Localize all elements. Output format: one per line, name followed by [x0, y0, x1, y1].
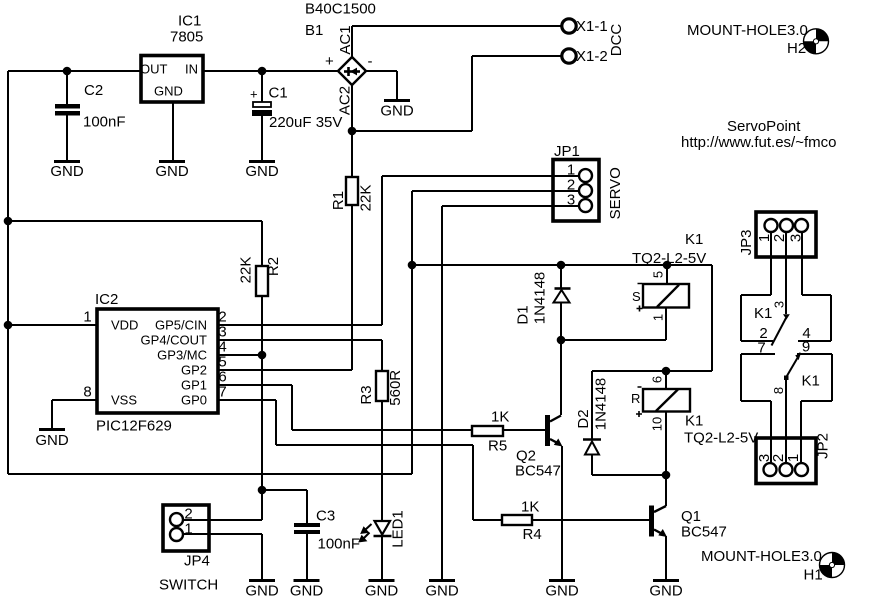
svg-text:R5: R5 [488, 438, 507, 455]
svg-text:8: 8 [83, 384, 91, 401]
svg-text:K1: K1 [754, 305, 772, 322]
svg-text:B40C1500: B40C1500 [305, 1, 376, 18]
svg-text:GP4/COUT: GP4/COUT [141, 333, 208, 348]
svg-text:100nF: 100nF [318, 536, 361, 553]
svg-text:100nF: 100nF [83, 114, 126, 131]
svg-text:VSS: VSS [111, 393, 137, 408]
svg-text:7805: 7805 [170, 29, 203, 46]
svg-text:GP0: GP0 [181, 393, 207, 408]
svg-text:560R: 560R [387, 370, 404, 406]
svg-text:GND: GND [545, 583, 579, 600]
svg-text:GND: GND [154, 84, 183, 99]
svg-text:1: 1 [651, 314, 666, 321]
svg-text:DCC: DCC [608, 24, 625, 57]
svg-text:1N4148: 1N4148 [593, 378, 610, 431]
svg-text:6: 6 [650, 376, 665, 383]
svg-text:1: 1 [184, 521, 192, 538]
svg-text:BC547: BC547 [515, 463, 561, 480]
svg-text:-: - [368, 53, 373, 70]
svg-text:K1: K1 [685, 231, 703, 248]
svg-text:X1-1: X1-1 [576, 18, 608, 35]
svg-text:2: 2 [771, 234, 788, 242]
svg-text:AC2: AC2 [337, 86, 354, 115]
svg-text:5: 5 [651, 271, 666, 278]
svg-text:OUT: OUT [140, 62, 168, 77]
svg-text:GND: GND [380, 103, 414, 120]
svg-text:TQ2-L2-5V: TQ2-L2-5V [684, 430, 758, 447]
svg-text:GND: GND [50, 163, 84, 180]
svg-text:GND: GND [35, 432, 69, 449]
svg-text:7: 7 [757, 340, 765, 357]
svg-text:JP1: JP1 [554, 143, 580, 160]
svg-text:GP2: GP2 [181, 363, 207, 378]
svg-text:R3: R3 [358, 385, 375, 404]
svg-text:1: 1 [785, 454, 802, 462]
svg-text:GND: GND [425, 583, 459, 600]
svg-text:AC1: AC1 [337, 25, 354, 54]
svg-text:PIC12F629: PIC12F629 [96, 418, 172, 435]
svg-text:JP4: JP4 [184, 553, 210, 570]
svg-text:3: 3 [788, 234, 805, 242]
svg-text:1: 1 [83, 309, 91, 326]
svg-text:GP5/CIN: GP5/CIN [155, 318, 207, 333]
svg-text:K1: K1 [685, 413, 703, 430]
svg-text:+: + [325, 53, 334, 70]
svg-text:ServoPoint: ServoPoint [727, 118, 801, 135]
svg-text:1N4148: 1N4148 [532, 272, 549, 325]
svg-text:R2: R2 [265, 257, 282, 276]
svg-text:R1: R1 [330, 191, 347, 210]
svg-text:3: 3 [772, 301, 787, 308]
svg-text:R: R [631, 391, 640, 406]
svg-text:D1: D1 [515, 305, 532, 324]
svg-text:GND: GND [290, 583, 324, 600]
svg-text:GND: GND [155, 163, 189, 180]
svg-text:VDD: VDD [111, 318, 138, 333]
svg-text:22K: 22K [238, 257, 255, 284]
svg-text:C2: C2 [84, 82, 103, 99]
svg-text:GND: GND [245, 583, 279, 600]
svg-text:8: 8 [771, 387, 786, 394]
svg-text:H1: H1 [804, 567, 823, 584]
svg-text:GP3/MC: GP3/MC [157, 348, 207, 363]
svg-text:7: 7 [218, 384, 226, 401]
svg-text:http://www.fut.es/~fmco: http://www.fut.es/~fmco [681, 134, 836, 151]
svg-text:K1: K1 [802, 373, 820, 390]
svg-text:GND: GND [365, 583, 399, 600]
svg-text:H2: H2 [787, 40, 806, 57]
svg-text:IC2: IC2 [95, 291, 118, 308]
svg-text:1K: 1K [521, 499, 539, 516]
svg-text:JP3: JP3 [738, 230, 755, 256]
svg-text:BC547: BC547 [681, 524, 727, 541]
svg-text:GP1: GP1 [181, 378, 207, 393]
svg-text:D2: D2 [575, 409, 592, 428]
svg-text:10: 10 [650, 417, 665, 431]
svg-text:MOUNT-HOLE3.0: MOUNT-HOLE3.0 [687, 22, 808, 39]
svg-text:1K: 1K [491, 409, 509, 426]
svg-text:TQ2-L2-5V: TQ2-L2-5V [632, 250, 706, 267]
svg-text:X1-2: X1-2 [576, 48, 608, 65]
svg-text:SWITCH: SWITCH [159, 577, 218, 594]
svg-text:B1: B1 [305, 22, 323, 39]
svg-text:220uF 35V: 220uF 35V [269, 114, 342, 131]
svg-text:LED1: LED1 [390, 510, 407, 548]
svg-text:GND: GND [245, 163, 279, 180]
svg-text:Q1: Q1 [681, 508, 701, 525]
svg-text:SERVO: SERVO [607, 167, 624, 219]
svg-text:JP2: JP2 [815, 433, 832, 459]
svg-text:3: 3 [567, 192, 575, 209]
svg-text:+: + [250, 87, 258, 102]
svg-text:C1: C1 [269, 85, 288, 102]
svg-text:9: 9 [802, 339, 810, 356]
svg-text:C3: C3 [316, 508, 335, 525]
svg-text:IC1: IC1 [178, 13, 201, 30]
svg-text:R4: R4 [523, 526, 542, 543]
svg-text:GND: GND [649, 583, 683, 600]
svg-text:IN: IN [185, 62, 198, 77]
svg-text:MOUNT-HOLE3.0: MOUNT-HOLE3.0 [701, 548, 822, 565]
svg-text:22K: 22K [358, 185, 375, 212]
svg-text:S: S [632, 289, 641, 304]
